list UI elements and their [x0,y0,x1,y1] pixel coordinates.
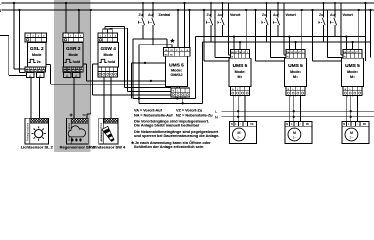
junction on routing wire rA [150,80,152,82]
svg-text:NZ = Nebenstelle-Zu: NZ = Nebenstelle-Zu [176,114,213,118]
svg-text:Mode: Mode [69,53,78,57]
svg-text:GSL 2: GSL 2 [30,46,44,52]
junction N / right edge wire [369,9,371,11]
wire U0 output down A [176,97,178,99]
wire Zu to UMS master strip [133,38,167,40]
motor M2 terminal row [285,125,312,127]
wire GSL2 output down [50,65,52,85]
svg-text:M: M [293,131,296,135]
wire GSL2 output right [46,64,51,66]
rail NA (Nebenstelle-Auf) [196,36,367,38]
wire into master strip col2 [171,45,173,48]
routing vertical v2 [126,28,128,91]
svg-text:UMS 5: UMS 5 [233,63,248,69]
GSL 2 top terminals [25,33,47,42]
wire right edge from N [369,10,371,57]
svg-text:M: M [237,131,240,135]
motor M3 symbol [345,128,358,141]
wire into master strip col1 [166,39,168,48]
svg-text:GM/GJ: GM/GJ [171,73,183,77]
wire N supply module 1 [245,10,247,50]
module U3 UMS 5 body [342,58,364,86]
push button Auf [334,3,336,18]
module U1 UMS 5 top terminal strip [231,50,250,59]
junction N / GSL2 tap [18,9,20,11]
wire jog1 into strip module 1 [215,56,231,58]
svg-text:Auf: Auf [273,13,280,17]
wire into GSL2 sub box [9,75,27,77]
svg-text:N: N [0,8,1,13]
svg-text:↓: ↓ [302,88,303,91]
wire GSW4 aux up [104,27,106,29]
grey highlight band (GSR 2 column) [54,0,90,152]
wire module 3 to motor 3 [356,96,358,122]
module U0 bottom terminal strip [171,88,190,97]
wire jog2 into strip module 2 [284,54,286,56]
junction rail NZ / module 2 [294,41,296,43]
svg-text:M↕: M↕ [293,75,298,79]
label plus rain [70,114,73,116]
motor M2 box [285,121,312,143]
svg-text:N: N [343,122,345,126]
svg-text:Auf: Auf [330,13,337,17]
star marker at UMS master [170,38,175,43]
wire module 3 to motor 1 [345,96,347,122]
sensor rain SR1 box [66,118,88,144]
GSW 4 bottom terminals [98,67,118,77]
wire GSW4 to wind sensor 2 [110,77,112,118]
routing wire rE [93,94,172,96]
svg-text:Auf: Auf [148,13,155,17]
svg-text:1~: 1~ [350,136,354,140]
wire N feed module 2 [255,10,257,61]
routing vertical v1 [124,27,126,88]
module U1 UMS 5 body [229,58,251,86]
wire jog1 module 1 [214,10,216,57]
push button Auf [152,3,154,18]
N bus wire [2,9,374,11]
svg-text:Regensensor SR 1: Regensensor SR 1 [60,145,96,150]
routing wire rC [125,87,171,89]
junction L / GSR2 [65,2,67,4]
svg-text:VZ = Vorort-Zu: VZ = Vorort-Zu [176,108,203,112]
wire jog2 module 2 [283,3,285,55]
push button Auf [277,3,279,18]
module U1 bottom terminal strip [231,87,250,96]
routing wire rA [87,80,178,82]
svg-text:Vorort: Vorort [343,13,354,17]
module U0 UMS 5 master top terminal strip [164,48,191,57]
svg-text:↓: ↓ [187,89,188,92]
module U3 bottom terminal strip [343,87,362,96]
rain cloud icon [68,126,85,137]
routing wire rB [51,83,180,85]
sun icon [35,130,43,138]
wire into GSL2 bottom terminal [14,68,25,70]
svg-text:UMS 5: UMS 5 [169,62,184,68]
svg-text:Prüfung beachten: Prüfung beachten [26,122,29,141]
windsock pole [101,129,103,142]
GSW 4 top terminals [98,33,118,42]
module U2 UMS 5 top terminal strip [286,50,305,59]
GSL2 mode glyph pulse 2s [28,59,35,62]
rail NZ (Nebenstelle-Zu) [202,41,370,43]
wire GSR2 to rain sensor plus [73,78,75,119]
svg-text:↓: ↓ [300,123,301,126]
wire L tap to UMS master [184,3,186,48]
routing wire lower B [139,102,202,104]
wire N feed jog into module 2 [256,60,285,62]
svg-text:hold: hold [108,60,116,64]
wire module 1 to motor 2 [237,96,239,122]
svg-text:NA = Nebenstelle-Auf: NA = Nebenstelle-Auf [134,114,173,118]
rain drops [71,138,73,141]
junction rail NA / module 3 [345,35,347,37]
routing wire lower A [133,98,196,100]
wire GSW4 to wind sensor 1 [103,77,105,118]
svg-text:und sperren bei Dauereinsteuer: und sperren bei Dauereinsteuerung die An… [134,134,219,138]
star footnote marker [131,141,135,144]
svg-text:↓: ↓ [245,123,246,126]
svg-text:VA: VA [165,49,168,52]
GSL 2 sub terminal box 1 [27,73,35,78]
junction rail NZ / module 1 [239,41,241,43]
junction N / Zentral wire [177,9,179,11]
svg-text:1~: 1~ [293,136,297,140]
wire GSL2 to light sensor 2 [39,78,41,119]
junction N / feed module 1 [203,9,205,11]
wire GSL2 to light sensor 1 [30,78,32,119]
junction N / module 1 [245,9,247,11]
sensor wind SW4 box [99,118,118,144]
device GSL 2 body [28,43,47,68]
wire N feed jog into module 1 [204,60,229,62]
junction L / right edge wire [364,2,366,4]
svg-text:PE: PE [363,123,367,126]
GSR 2 top terminals [63,33,83,42]
svg-text:↑: ↑ [182,89,183,92]
svg-text:VA = Vorort-Auf: VA = Vorort-Auf [134,108,163,112]
junction rail NZ / module 3 [351,41,353,43]
svg-text:Die Anlage bleibt manuell bedi: Die Anlage bleibt manuell bedienbar [134,124,200,128]
wire GSW4 output down [92,64,94,95]
svg-text:1~: 1~ [237,136,241,140]
junction motor 1 / bottom L line [237,110,239,112]
wire module 2 to motor 3 [299,96,301,122]
wire rail NA to module 3 [345,37,347,50]
svg-text:Zu: Zu [262,13,266,17]
wire rB into UMS master [179,84,181,88]
wire GSW4 to routing v2 [110,27,127,29]
wire module 1 to motor 3 [244,96,246,122]
wire N tap to GSL2 [19,10,21,73]
wire N supply module 2 [301,10,303,50]
svg-text:Windsensor SW 4: Windsensor SW 4 [92,145,127,150]
junction motor 3 / bottom L line [350,110,352,112]
wire GSW4 aux up 2 [109,27,111,30]
svg-text:M: M [350,131,353,135]
sensor light SL2 box [25,118,49,144]
junction N / GSR2 [78,9,80,11]
wire rail NA to module 2 [288,37,290,50]
svg-text:↑: ↑ [296,123,297,126]
routing wire rD [127,90,171,92]
wire module 3 to motor 2 [350,96,352,122]
svg-text:↑: ↑ [297,88,298,91]
push button Zu [210,3,212,18]
wire module 1 to motor 1 [233,96,235,122]
wire rail NZ to module 1 [239,42,241,50]
routing vertical right B [201,42,203,103]
wire module 2 to motor 2 [293,96,295,122]
module U3 UMS 5 top terminal strip [343,50,362,59]
svg-text:GSW 4: GSW 4 [100,46,116,52]
svg-text:Zentral: Zentral [159,13,171,17]
wire jog to rain minus [87,113,91,115]
junction motor 2 / bottom N line [293,116,295,118]
wire N feed module 3 [312,10,314,61]
junction L / UMS master [183,2,185,4]
push button Zu [266,3,268,18]
GSR 2 sub terminal box 2 [73,73,81,78]
svg-text:Zu: Zu [139,13,143,17]
svg-text:PE: PE [250,123,254,126]
svg-text:Schließen der Anlage erforderl: Schließen der Anlage erforderlich sein [134,145,204,149]
junction N / module 2 [301,9,303,11]
wire jog1 into strip module 3 [328,56,344,58]
svg-text:↑: ↑ [242,88,243,91]
motor M1 box [230,121,257,143]
module U2 UMS 5 body [285,58,307,86]
svg-text:M↕: M↕ [350,75,355,79]
wire jog2 module 1 [227,3,229,55]
svg-text:UMS 5: UMS 5 [288,63,303,69]
svg-text:Lichtsensor SL 2: Lichtsensor SL 2 [21,145,54,150]
wire U0 output down B [182,97,184,103]
GSL 2 bottom terminals [25,67,46,72]
junction U0 output / lower A [176,97,178,99]
svg-text:GSR 2: GSR 2 [66,46,81,52]
wire jog1 module 2 [270,10,272,57]
svg-text:Vorort: Vorort [286,13,297,17]
wire N feed jog into module 3 [313,60,342,62]
device GSR 2 body [64,43,84,68]
svg-text:↓: ↓ [359,88,360,91]
svg-text:Zu: Zu [207,13,211,17]
wire rail NZ to module 3 [352,42,354,50]
svg-text:2s: 2s [37,60,41,64]
svg-text:Mode:: Mode: [171,69,182,73]
wire into UMS master left side [131,62,165,64]
routing vertical right A [195,37,197,99]
GSR 2 bottom terminals [63,67,83,72]
svg-text:Mode:: Mode: [347,70,358,74]
junction U0 output / lower B [182,102,184,104]
bottom N distribution wire [222,116,374,118]
svg-text:Mode: Mode [104,53,113,57]
wire rA into UMS master [176,81,178,88]
wire down left of GSL2 [8,36,10,76]
push button Auf [222,3,224,18]
svg-text:Mode:: Mode: [290,70,301,74]
junction N / UMS master [188,9,190,11]
wire rail NZ to module 2 [295,42,297,50]
svg-text:↑: ↑ [240,123,241,126]
junction N / module 3 [358,9,360,11]
wire Zentral to UMS master [177,10,179,48]
wire rail NA to module 1 [233,37,235,50]
wire jog2 into strip module 3 [341,54,343,56]
module U0 UMS 5 master body [166,56,188,86]
motor M3 terminal row [342,125,369,127]
wire jog1 into strip module 2 [271,56,287,58]
junction N / feed module 2 [254,9,256,11]
svg-text:N: N [215,114,218,119]
routing vertical left A [132,39,134,98]
wire jog2 into strip module 1 [228,54,230,56]
GSL 2 sub terminal box 2 [37,73,45,78]
wire jog1 module 3 [327,10,329,57]
svg-text:↑: ↑ [354,88,355,91]
wire down from master left wire [130,63,132,99]
label minus rain [83,114,86,116]
push button Zu [323,3,325,18]
windsock icon [102,126,114,142]
svg-text:Mode:: Mode: [235,70,246,74]
motor M2 symbol [288,128,301,141]
wire right edge from L [364,3,366,61]
motor M1 terminal row [230,125,257,127]
junction motor 1 / bottom N line [237,116,239,118]
GSW 4 aux terminal pair [103,29,113,33]
bottom L distribution wire [222,110,374,112]
junction motor 3 / bottom N line [350,116,352,118]
wire N supply module 3 [358,10,360,50]
svg-text:N: N [231,122,233,126]
wire GSW4 output left [93,63,99,65]
wire into GSL2 bottom terminal 2 [20,72,26,74]
junction L / GSL2 tap [13,2,15,4]
wire jog2 module 3 [340,3,342,55]
svg-text:Zu: Zu [319,13,323,17]
motor M3 box [342,121,369,143]
wire module 2 to motor 1 [288,96,290,122]
svg-text:Auf: Auf [218,13,225,17]
wire rain sensor minus [86,114,88,118]
junction routing A/B cross [138,97,140,99]
svg-text:↑: ↑ [353,123,354,126]
wire GSR2 output down [86,64,88,81]
svg-text:Vorort: Vorort [230,13,241,17]
device GSW 4 body [98,43,118,68]
GSW4 mode glyph pulse hold [99,59,106,62]
svg-text:UMS 5: UMS 5 [345,63,360,69]
junction N / rain sensor [90,9,92,11]
wire N feed module 1 [203,10,205,61]
svg-text:hold: hold [73,60,81,64]
wire N tap to UMS master [189,10,191,48]
svg-text:↓: ↓ [247,88,248,91]
routing vertical left B [138,45,140,104]
L bus wire [2,2,374,4]
svg-text:N: N [286,122,288,126]
wire GSW4 to routing v1 [105,26,125,28]
module U2 bottom terminal strip [286,87,305,96]
wire L tap to GSR2 [65,3,67,33]
svg-text:Mode: Mode [32,53,41,57]
svg-text:PE: PE [306,123,310,126]
junction N / feed module 3 [311,9,313,11]
junction motor 2 / bottom L line [293,110,295,112]
push button Zu [142,3,144,18]
GSR 2 sub terminal box 1 [64,73,72,78]
GSR2 mode glyph pulse hold [64,59,71,62]
svg-text:↓: ↓ [357,123,358,126]
wire Auf to UMS master strip [139,44,172,46]
wire from left margin [0,35,9,37]
junction rail NA / module 2 [288,35,290,37]
junction rail NA / module 1 [233,35,235,37]
wire GSR2 output right [83,63,87,65]
wire N down right of grey band [90,10,92,114]
wire N tap to GSR2 [78,10,80,33]
junction on master left wire [144,62,146,64]
wire L tap to GSL2 [13,3,15,69]
svg-text:M↕: M↕ [238,75,243,79]
motor M1 symbol [233,128,246,141]
